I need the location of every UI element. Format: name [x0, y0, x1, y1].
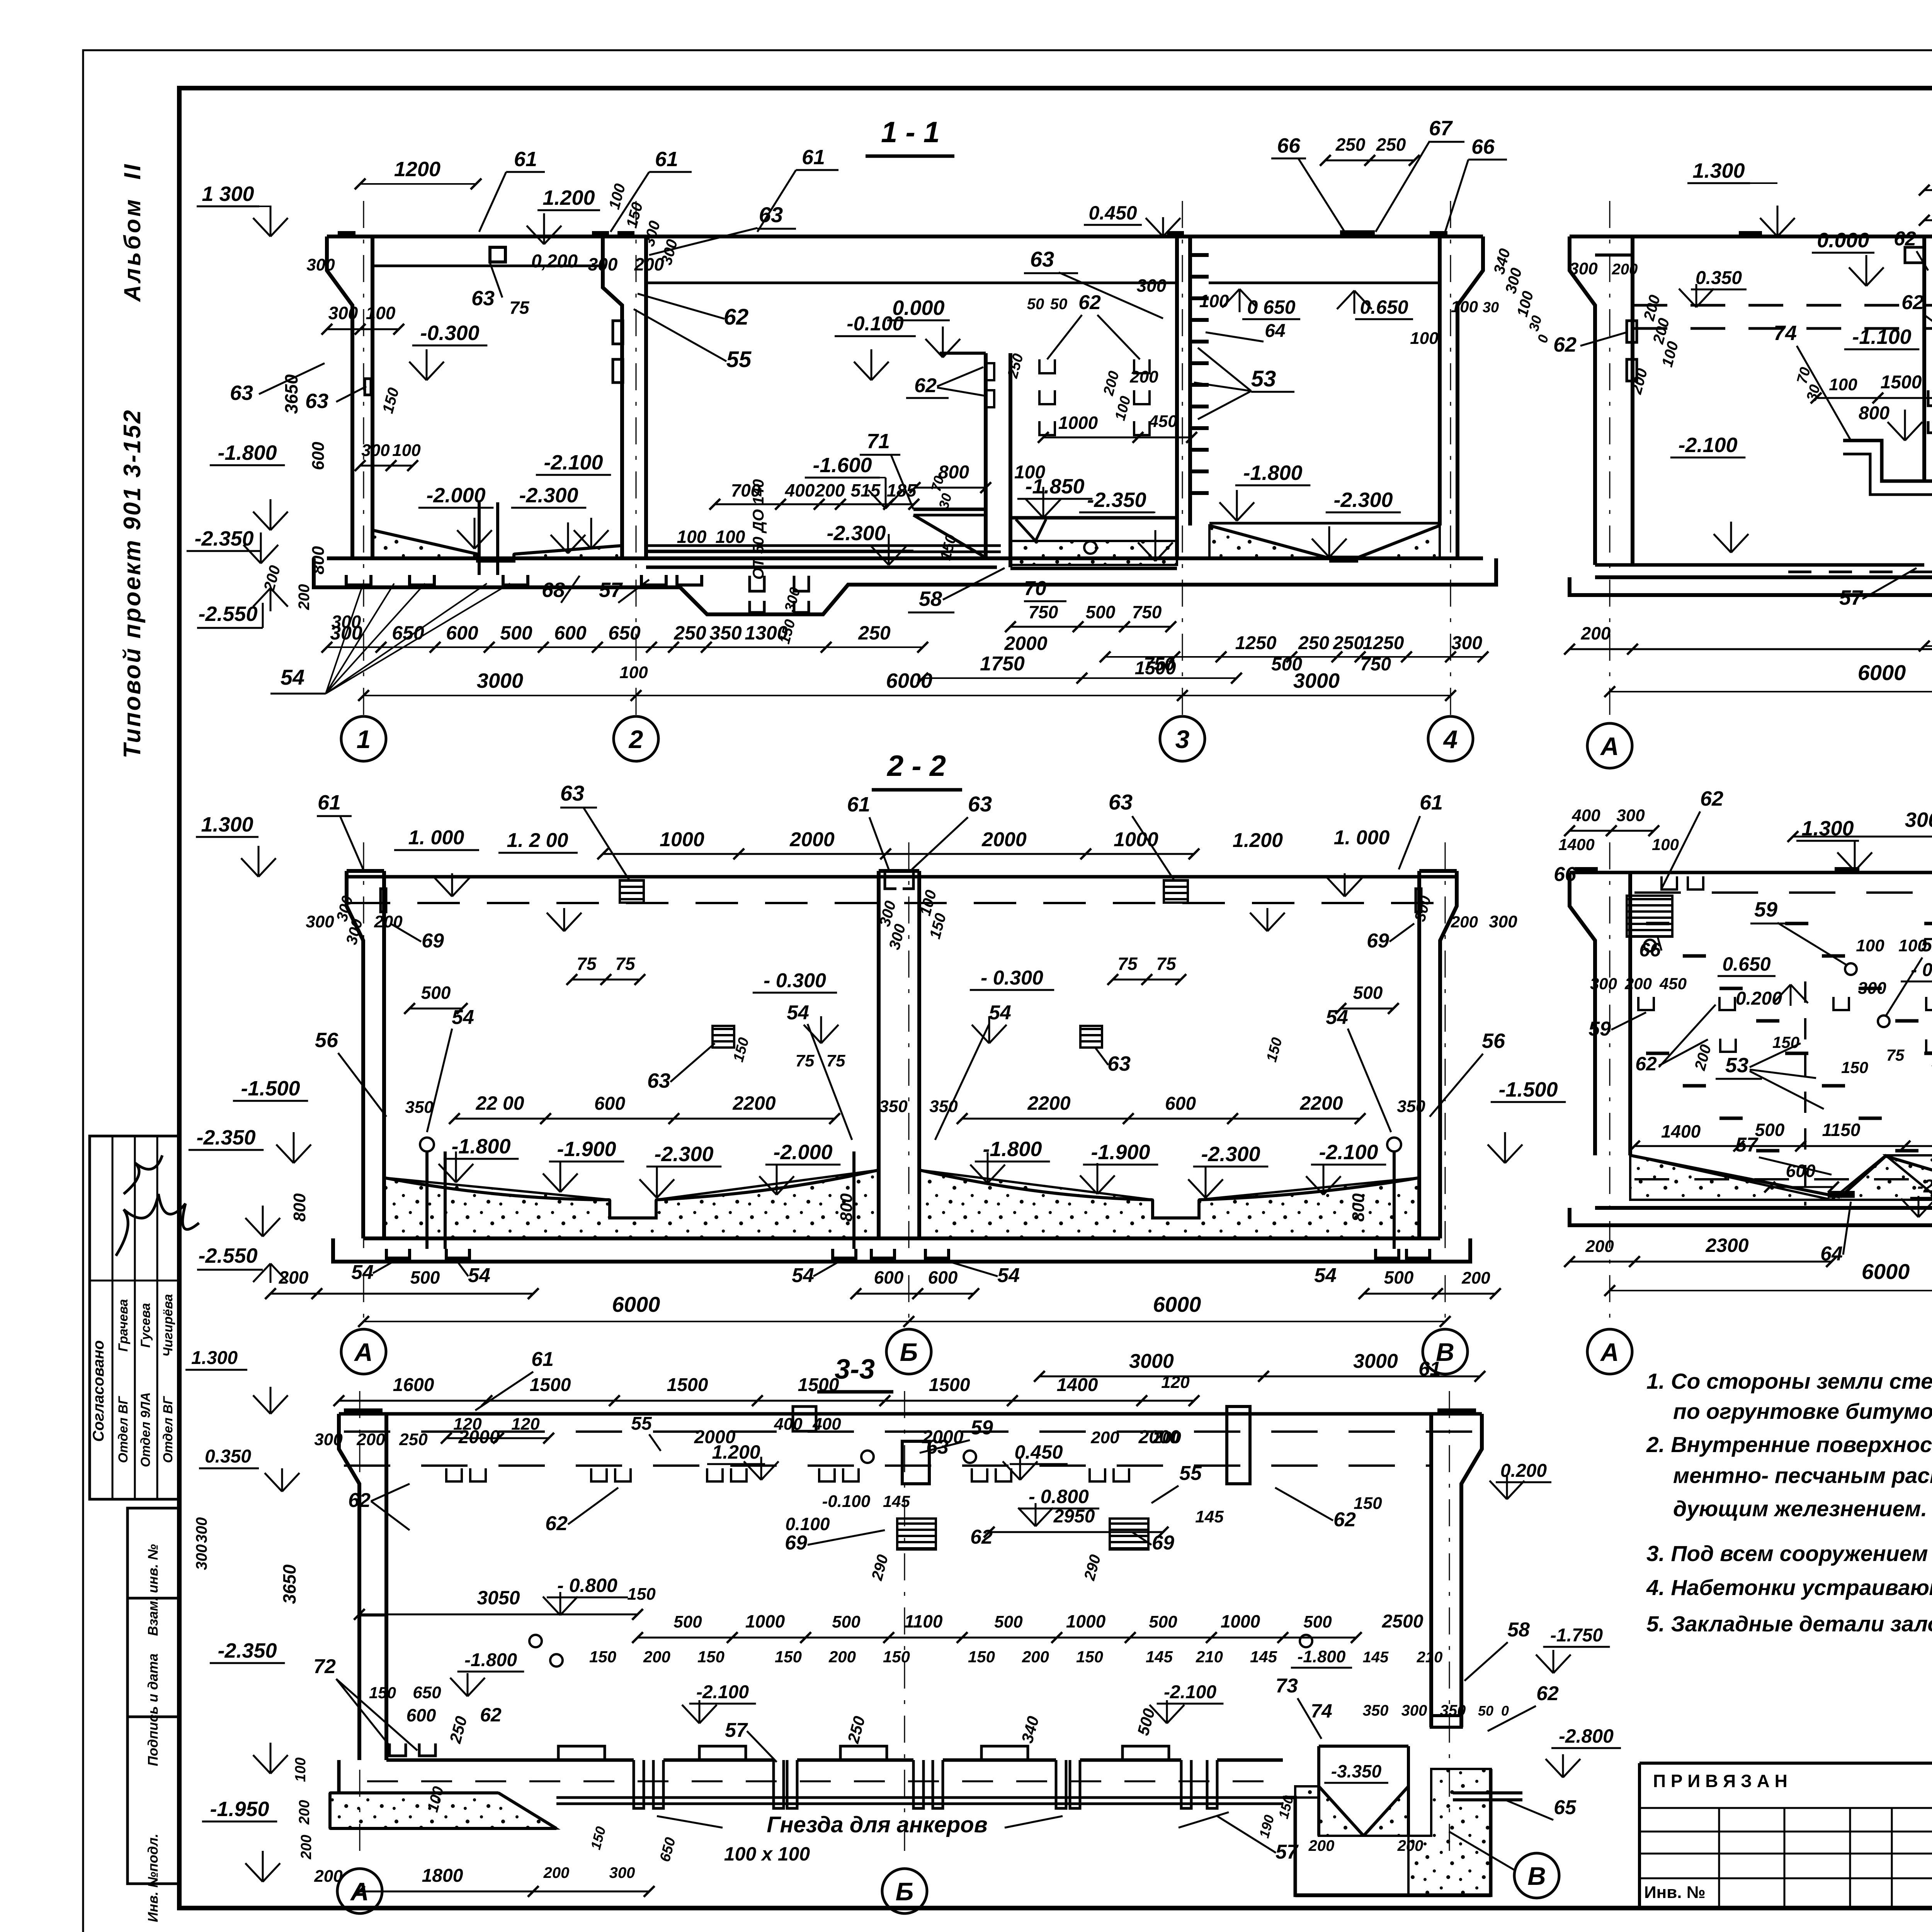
svg-text:1. 000: 1. 000: [408, 827, 464, 849]
svg-text:дующим железнением.: дующим железнением.: [1673, 1497, 1927, 1521]
svg-text:62: 62: [1894, 228, 1916, 250]
svg-text:73: 73: [1276, 1675, 1298, 1697]
svg-text:-1.950: -1.950: [210, 1798, 269, 1821]
svg-text:400: 400: [812, 1415, 841, 1434]
svg-text:2200: 2200: [732, 1092, 776, 1114]
svg-text:1000: 1000: [1066, 1611, 1106, 1631]
svg-text:56: 56: [1482, 1029, 1505, 1053]
svg-text:250: 250: [673, 622, 706, 644]
svg-text:1500: 1500: [1135, 658, 1176, 679]
section 1-1 wall axis 2: [592, 231, 646, 558]
svg-text:800: 800: [309, 546, 328, 575]
section 1-1 wall axis 4: [1430, 231, 1483, 558]
svg-text:А: А: [350, 1877, 369, 1906]
svg-text:210: 210: [1417, 1649, 1443, 1666]
svg-text:250: 250: [1333, 633, 1364, 653]
svg-text:150: 150: [697, 1648, 724, 1666]
svg-text:300: 300: [588, 254, 618, 274]
svg-text:1500: 1500: [667, 1375, 708, 1395]
section 2-2 floor right cell: [919, 1170, 1419, 1238]
svg-text:2300: 2300: [1705, 1235, 1748, 1256]
svg-text:200: 200: [828, 1648, 856, 1666]
svg-text:-2.100: -2.100: [1319, 1141, 1378, 1164]
svg-text:-2.000: -2.000: [773, 1141, 832, 1164]
svg-text:68: 68: [542, 578, 565, 602]
svg-text:Гнезда для анкеров: Гнезда для анкеров: [767, 1812, 988, 1837]
svg-text:145: 145: [1146, 1648, 1173, 1666]
svg-text:300: 300: [1590, 975, 1617, 993]
svg-text:250: 250: [858, 622, 891, 644]
svg-text:50: 50: [1478, 1703, 1493, 1719]
svg-text:3650: 3650: [281, 374, 301, 414]
section 4-4 dims: [1553, 159, 1932, 697]
svg-text:1.300: 1.300: [1692, 159, 1745, 182]
svg-text:300: 300: [609, 1864, 635, 1881]
svg-text:- 0.800: - 0.800: [1029, 1486, 1089, 1507]
svg-text:А: А: [354, 1338, 373, 1366]
svg-text:1. 2 00: 1. 2 00: [507, 829, 568, 852]
svg-text:150: 150: [627, 1585, 656, 1604]
section 1-1 base slab: [314, 502, 1496, 614]
svg-text:57: 57: [725, 1719, 748, 1742]
svg-text:100: 100: [1410, 329, 1439, 348]
svg-text:66: 66: [1639, 939, 1661, 961]
svg-text:100: 100: [677, 527, 707, 547]
section 2-2 ground line: [347, 871, 1457, 877]
svg-text:1000: 1000: [1114, 828, 1158, 851]
svg-text:500: 500: [421, 983, 451, 1003]
section 5-5 ground line: [1570, 871, 1932, 874]
svg-text:69: 69: [1367, 930, 1389, 952]
svg-text:145: 145: [1195, 1507, 1224, 1526]
section 2-2 wall axis A: [347, 871, 386, 1238]
section 5-5 top caps and embeds: [1638, 867, 1932, 1053]
svg-text:300: 300: [193, 1517, 210, 1543]
svg-text:600: 600: [446, 622, 478, 644]
svg-text:-2.300: -2.300: [654, 1143, 713, 1166]
svg-text:-2.100: -2.100: [1164, 1682, 1216, 1702]
svg-text:-1.800: -1.800: [983, 1138, 1042, 1161]
svg-text:200: 200: [1612, 261, 1638, 278]
svg-text:61: 61: [1420, 791, 1443, 814]
svg-text:-1.500: -1.500: [241, 1077, 300, 1100]
left margin stamp column: [90, 162, 199, 1922]
svg-text:250: 250: [1298, 633, 1329, 653]
svg-text:700: 700: [731, 480, 761, 500]
svg-text:600: 600: [874, 1267, 904, 1287]
svg-text:100: 100: [1856, 936, 1884, 955]
svg-text:350: 350: [879, 1097, 908, 1116]
section 4-4 axis bubbles: [1587, 723, 1932, 768]
section 2-2 wall axis V: [1416, 871, 1457, 1238]
svg-text:0.200: 0.200: [1736, 988, 1782, 1009]
svg-text:75: 75: [1156, 954, 1177, 974]
section 2-2 hatched embeds: [620, 880, 1188, 1048]
section 4-4 wall axis A: [1570, 236, 1637, 565]
svg-text:500: 500: [1149, 1612, 1177, 1631]
svg-text:62: 62: [348, 1489, 371, 1512]
notes block: [1646, 1369, 1932, 1636]
svg-text:800: 800: [837, 1193, 856, 1222]
svg-text:800: 800: [1859, 403, 1889, 423]
svg-text:250: 250: [399, 1430, 428, 1449]
section 1-1 wall axis 3 with teeth: [1167, 230, 1375, 558]
svg-text:74: 74: [1311, 1700, 1332, 1722]
svg-text:1600: 1600: [393, 1375, 434, 1395]
svg-text:0.000: 0.000: [892, 296, 944, 320]
svg-text:- 0.800: - 0.800: [557, 1575, 617, 1596]
svg-text:1400: 1400: [1057, 1375, 1098, 1395]
svg-text:3. Под всем сооружением: 3. Под всем сооружением устраивается под…: [1646, 1541, 1932, 1566]
svg-text:54: 54: [1326, 1006, 1348, 1029]
section 5-5 wall axis A: [1570, 867, 1630, 1155]
svg-text:1 300: 1 300: [202, 182, 254, 206]
svg-text:500: 500: [832, 1612, 861, 1631]
svg-text:350: 350: [709, 622, 742, 644]
svg-text:150: 150: [883, 1648, 910, 1666]
svg-text:75: 75: [796, 1051, 815, 1070]
svg-text:-1.800: -1.800: [218, 441, 277, 464]
svg-text:6000: 6000: [1153, 1292, 1201, 1316]
section 4-4 ground line: [1570, 235, 1932, 238]
svg-text:54: 54: [452, 1006, 474, 1029]
svg-text:300: 300: [1401, 1702, 1427, 1719]
svg-text:2: 2: [628, 725, 643, 753]
svg-text:В: В: [1527, 1862, 1546, 1890]
svg-text:П Р И В Я З А Н: П Р И В Я З А Н: [1653, 1771, 1787, 1791]
svg-text:69: 69: [1152, 1532, 1174, 1554]
svg-text:65: 65: [1554, 1796, 1577, 1819]
svg-text:0.450: 0.450: [1088, 202, 1137, 224]
svg-text:55: 55: [726, 347, 752, 372]
svg-text:200: 200: [1461, 1269, 1490, 1287]
svg-text:61: 61: [1418, 1358, 1441, 1380]
svg-text:0,200: 0,200: [531, 251, 578, 272]
svg-text:57: 57: [1735, 1134, 1759, 1156]
svg-text:200: 200: [298, 1835, 315, 1859]
svg-text:Отдел 9ЛА: Отдел 9ЛА: [138, 1392, 153, 1467]
svg-text:74: 74: [1774, 321, 1797, 345]
svg-text:-2.800: -2.800: [1559, 1725, 1614, 1747]
svg-text:200: 200: [296, 1800, 313, 1825]
section 4-4 floor and slab: [1570, 565, 1932, 595]
svg-text:300: 300: [1137, 276, 1167, 296]
svg-text:100: 100: [392, 441, 421, 460]
svg-text:300: 300: [328, 303, 358, 323]
svg-text:5. Закладные детали заложи: 5. Закладные детали заложить до бетониро…: [1646, 1612, 1932, 1636]
svg-text:400: 400: [785, 480, 815, 500]
svg-text:0.100: 0.100: [785, 1514, 830, 1534]
svg-text:-0.300: -0.300: [420, 321, 479, 345]
section 4-4 water level dashes: [1633, 305, 1932, 328]
svg-text:500: 500: [500, 622, 532, 644]
svg-text:1. Со стороны земли стены: 1. Со стороны земли стены окрашиваются г…: [1646, 1369, 1932, 1394]
svg-text:650: 650: [413, 1683, 441, 1702]
svg-text:600: 600: [309, 442, 328, 470]
svg-text:600: 600: [594, 1094, 625, 1114]
svg-text:200: 200: [1308, 1837, 1335, 1854]
svg-text:62: 62: [1078, 291, 1101, 314]
svg-text:2500: 2500: [1382, 1611, 1423, 1632]
svg-text:1 - 1: 1 - 1: [881, 116, 940, 149]
svg-text:300: 300: [1451, 633, 1482, 653]
section 5-5 marker circles: [1644, 940, 1932, 1027]
svg-text:62: 62: [1700, 787, 1723, 810]
svg-text:500: 500: [1353, 983, 1383, 1003]
svg-text:200: 200: [1022, 1648, 1049, 1666]
section 3-3 embeds and details: [446, 1406, 1312, 1667]
svg-text:61: 61: [802, 146, 825, 169]
svg-text:300: 300: [332, 612, 361, 632]
svg-text:1500: 1500: [530, 1375, 571, 1395]
section 5-5 axis lines: [1610, 842, 1932, 1321]
svg-text:1.300: 1.300: [201, 813, 253, 836]
svg-text:62: 62: [1635, 1053, 1657, 1075]
svg-text:300: 300: [1858, 979, 1886, 998]
svg-text:145: 145: [883, 1492, 910, 1510]
svg-text:- 0.300: - 0.300: [764, 969, 826, 992]
svg-text:185: 185: [887, 480, 917, 500]
svg-text:3000: 3000: [1293, 669, 1340, 692]
svg-text:100: 100: [1199, 291, 1229, 311]
svg-text:100: 100: [366, 303, 396, 323]
svg-text:А: А: [1600, 1338, 1619, 1366]
svg-text:63: 63: [1109, 790, 1133, 814]
svg-text:-2.100: -2.100: [1917, 1176, 1932, 1197]
svg-text:0.350: 0.350: [1696, 268, 1742, 288]
svg-text:Согласовано: Согласовано: [90, 1340, 107, 1442]
section 3-3 right pit: [1283, 1746, 1522, 1895]
svg-text:1500: 1500: [929, 1375, 970, 1395]
svg-text:6000: 6000: [886, 669, 932, 692]
svg-text:61: 61: [847, 793, 870, 816]
svg-text:-1.100: -1.100: [1852, 325, 1911, 349]
svg-text:0: 0: [1501, 1703, 1509, 1719]
svg-text:2200: 2200: [1299, 1092, 1343, 1114]
svg-text:63: 63: [968, 792, 992, 816]
svg-text:63: 63: [560, 781, 584, 805]
svg-text:75: 75: [615, 954, 636, 974]
svg-text:61: 61: [531, 1348, 554, 1371]
svg-text:58: 58: [1507, 1619, 1530, 1641]
section 5-5 axis bubbles: [1587, 1329, 1932, 1374]
svg-text:1800: 1800: [422, 1866, 463, 1886]
svg-text:500: 500: [1755, 1120, 1785, 1140]
svg-text:54: 54: [351, 1261, 374, 1284]
svg-text:800: 800: [1349, 1193, 1368, 1222]
svg-text:54: 54: [989, 1002, 1011, 1024]
svg-text:200: 200: [643, 1648, 670, 1666]
svg-text:Типовой проект 901 3-152: Типовой проект 901 3-152: [119, 408, 146, 758]
svg-text:200: 200: [1090, 1428, 1119, 1447]
svg-text:57: 57: [1276, 1841, 1299, 1863]
svg-text:300: 300: [1569, 259, 1598, 278]
svg-text:0.450: 0.450: [1014, 1441, 1063, 1463]
svg-text:300: 300: [314, 1430, 343, 1449]
svg-text:-1.800: -1.800: [1243, 461, 1302, 485]
svg-text:0.650: 0.650: [1360, 296, 1408, 318]
svg-text:750: 750: [1132, 602, 1162, 622]
svg-text:Гусева: Гусева: [138, 1303, 153, 1348]
svg-text:54: 54: [787, 1002, 809, 1024]
svg-text:1400: 1400: [1661, 1121, 1701, 1141]
svg-text:600: 600: [406, 1705, 436, 1725]
svg-text:600: 600: [554, 622, 587, 644]
svg-text:-1.900: -1.900: [1091, 1141, 1150, 1164]
svg-text:3650: 3650: [279, 1564, 299, 1604]
svg-text:4: 4: [1443, 725, 1458, 753]
svg-text:200: 200: [634, 254, 664, 274]
svg-text:100: 100: [716, 527, 745, 547]
svg-text:150: 150: [1354, 1494, 1382, 1513]
svg-text:1750: 1750: [980, 653, 1025, 675]
svg-text:750: 750: [1029, 602, 1058, 622]
svg-text:200: 200: [1581, 623, 1611, 643]
svg-text:350: 350: [1363, 1702, 1389, 1719]
svg-text:54: 54: [281, 665, 304, 689]
svg-text:-1.900: -1.900: [557, 1138, 616, 1161]
svg-text:200: 200: [1129, 367, 1158, 386]
svg-text:- 0.300: - 0.300: [1911, 960, 1932, 980]
svg-text:-2.550: -2.550: [198, 1244, 257, 1267]
svg-text:-1.850: -1.850: [1025, 475, 1084, 498]
svg-text:1500: 1500: [1881, 372, 1922, 393]
svg-text:6000: 6000: [1862, 1259, 1910, 1284]
svg-text:30: 30: [1483, 299, 1499, 316]
section 4-4 wall B1: [1905, 236, 1932, 506]
svg-text:56: 56: [315, 1029, 338, 1052]
svg-text:1: 1: [357, 725, 371, 753]
svg-text:1000: 1000: [1221, 1611, 1260, 1631]
section 5-5 hoppers: [1630, 1155, 1932, 1200]
svg-text:Чигирёва: Чигирёва: [161, 1294, 175, 1357]
section 1-1 floor hopper cell 3-4: [1209, 523, 1440, 563]
svg-text:Б: Б: [900, 1338, 918, 1366]
svg-text:2000: 2000: [1004, 633, 1047, 654]
svg-text:-2.550: -2.550: [198, 602, 257, 626]
svg-text:22 00: 22 00: [475, 1092, 524, 1114]
svg-text:3000: 3000: [1905, 808, 1932, 832]
svg-text:62: 62: [724, 304, 749, 330]
svg-text:62: 62: [1333, 1509, 1356, 1531]
svg-text:70: 70: [1024, 577, 1046, 600]
svg-text:400: 400: [774, 1415, 803, 1434]
svg-text:54: 54: [468, 1264, 490, 1287]
svg-text:1000: 1000: [1058, 413, 1098, 433]
svg-text:500: 500: [1384, 1267, 1414, 1287]
section 1-1 ledge 71: [646, 509, 997, 567]
section 3-3 left footing: [330, 1760, 1283, 1828]
svg-text:300: 300: [361, 441, 390, 460]
svg-text:2000: 2000: [789, 828, 835, 851]
svg-text:100: 100: [1652, 835, 1679, 854]
svg-text:-2.350: -2.350: [196, 1126, 255, 1149]
svg-text:250: 250: [1335, 134, 1366, 155]
svg-text:2 - 2: 2 - 2: [886, 750, 946, 782]
svg-text:3000: 3000: [1353, 1350, 1398, 1372]
section 5-5 water dashes: [1634, 893, 1932, 1206]
svg-text:1.200: 1.200: [543, 186, 595, 209]
svg-text:75: 75: [1886, 1046, 1905, 1064]
svg-text:-2.000: -2.000: [426, 484, 485, 507]
svg-text:-2.100: -2.100: [696, 1682, 749, 1702]
svg-text:600: 600: [1165, 1094, 1196, 1114]
svg-text:63: 63: [647, 1069, 670, 1092]
svg-text:57: 57: [1839, 586, 1864, 609]
svg-text:55: 55: [631, 1413, 652, 1434]
section 3-3 axis bubbles: [337, 1832, 1559, 1913]
svg-text:62: 62: [480, 1704, 502, 1726]
svg-text:100 х 100: 100 х 100: [724, 1843, 810, 1865]
section 3-3 title: [817, 1354, 893, 1392]
svg-text:0.000: 0.000: [1817, 229, 1869, 252]
svg-text:2200: 2200: [1027, 1092, 1070, 1114]
svg-text:200: 200: [279, 1267, 309, 1287]
svg-text:61: 61: [655, 148, 678, 171]
section 2-2 axis bubbles: [341, 1329, 1468, 1374]
svg-text:53: 53: [1725, 1054, 1748, 1077]
section 2-2 water dash line: [348, 902, 1457, 904]
svg-text:50: 50: [1027, 296, 1044, 313]
svg-text:2000: 2000: [458, 1427, 500, 1447]
svg-text:54: 54: [997, 1264, 1020, 1287]
svg-text:-2.350: -2.350: [218, 1639, 277, 1662]
svg-text:3: 3: [1175, 725, 1190, 753]
section 3-3 axis lines: [360, 1391, 1449, 1855]
svg-text:150: 150: [775, 1648, 802, 1666]
svg-text:-2.350: -2.350: [1087, 488, 1146, 512]
svg-text:Б: Б: [896, 1877, 914, 1906]
svg-text:250: 250: [1376, 134, 1406, 155]
section 3-3 wall axis A: [339, 1408, 386, 1760]
svg-text:63: 63: [305, 389, 328, 413]
svg-text:69: 69: [422, 930, 444, 952]
svg-text:1100: 1100: [905, 1611, 943, 1631]
svg-text:-2.300: -2.300: [1201, 1143, 1260, 1166]
svg-text:6000: 6000: [612, 1292, 660, 1316]
svg-text:по огрунтовке битумом, разве: по огрунтовке битумом, разведенном в бен…: [1673, 1399, 1932, 1424]
svg-text:63: 63: [471, 287, 495, 310]
section 3-3 floor with anchor pockets: [386, 1746, 1283, 1808]
svg-text:100: 100: [1829, 375, 1857, 394]
svg-text:800: 800: [290, 1193, 309, 1222]
section 1-1 title: [866, 116, 954, 156]
svg-text:Инв. №: Инв. №: [1644, 1883, 1706, 1902]
svg-text:Отдел ВГ: Отдел ВГ: [161, 1396, 175, 1463]
section 1-1 axis lines: [364, 201, 1451, 716]
svg-text:-1.750: -1.750: [1550, 1625, 1603, 1646]
svg-text:2000: 2000: [694, 1427, 736, 1447]
svg-text:1150: 1150: [1822, 1120, 1861, 1140]
svg-text:450: 450: [1148, 412, 1177, 431]
svg-text:-2.300: -2.300: [1333, 488, 1393, 512]
svg-text:500: 500: [994, 1612, 1023, 1631]
section 4-4 ledge element 74: [1843, 440, 1932, 495]
svg-text:500: 500: [410, 1267, 440, 1287]
svg-text:62: 62: [1553, 333, 1577, 356]
svg-text:50: 50: [1050, 296, 1068, 313]
svg-text:100: 100: [619, 663, 648, 682]
svg-text:-1.800: -1.800: [1298, 1647, 1346, 1666]
svg-text:Подпись и дата: Подпись и дата: [145, 1653, 161, 1766]
svg-text:61: 61: [514, 148, 537, 171]
svg-text:64: 64: [1265, 321, 1285, 341]
svg-text:75: 75: [509, 298, 530, 318]
section 1-1 dimension rows: [321, 622, 1488, 701]
svg-text:500: 500: [673, 1612, 702, 1631]
svg-text:3050: 3050: [477, 1587, 520, 1609]
svg-text:515: 515: [851, 480, 881, 500]
